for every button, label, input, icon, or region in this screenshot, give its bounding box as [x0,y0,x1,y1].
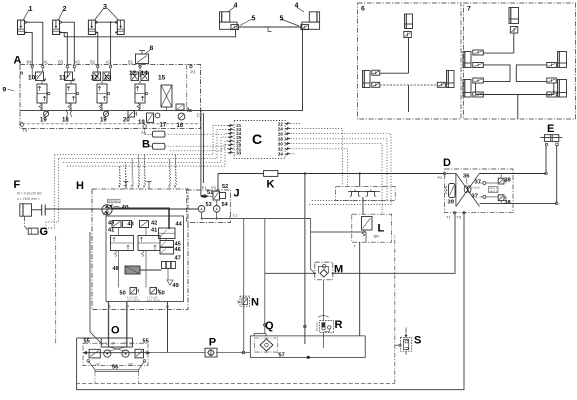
box7 valve LU a [473,50,484,55]
box7 wire center drop [517,95,519,120]
H vent T right [147,182,152,190]
svg-text:E: E [547,123,554,135]
O dashdot body [83,343,148,366]
box6 valve right [437,82,445,87]
svg-text:44: 44 [176,222,183,228]
H vent T left [124,182,129,190]
box6 wire upper rail [380,72,409,74]
check valve 19a [43,111,48,117]
svg-text:J: J [234,188,240,200]
leader 4 left [228,7,235,12]
coupling box above L [336,186,396,200]
dashed enclosure left edge [55,236,57,345]
ECU C box [234,121,285,159]
svg-text:19: 19 [138,120,145,126]
relief valve 20 [128,111,137,118]
governor 16 [178,113,185,120]
svg-text:P2: P2 [438,175,444,180]
wire R down [322,332,324,348]
svg-text:55: 55 [143,339,149,345]
trailer unit Q outer box [250,336,365,358]
A left port circle [20,72,22,74]
solenoid valve 11 [65,72,79,111]
main wire K line [218,173,264,175]
svg-text:N: N [251,297,259,309]
wire M line to D T1 [265,213,455,273]
svg-text:43: 43 [108,221,114,227]
wire K branch down to J valve [217,174,219,192]
Q inner dashdot [254,338,277,352]
box7 chamber right lower [558,80,567,98]
box7 chamber right upper [558,52,567,68]
coupling E [540,135,562,146]
wire steering shaft [32,209,42,211]
wire 44 to 45 [165,239,167,241]
svg-text:ANTI DROP: ANTI DROP [147,299,160,302]
svg-text:41: 41 [151,228,157,234]
leader 9 [8,89,15,91]
box7 wire top chamber drop [513,33,515,53]
hand brake unit J box [187,190,231,223]
box7 chamber left lower [463,80,471,98]
gauge 53 [198,206,205,213]
valve stack left [111,221,134,257]
svg-text:57: 57 [279,353,285,359]
box7 wire top rail [484,52,514,54]
breather 49 [167,280,173,285]
svg-text:38: 38 [504,200,511,206]
wire E left down [545,146,547,173]
box7 valve RU [547,63,557,68]
svg-text:K: K [267,179,275,191]
solenoid valve 12-14 [131,72,149,111]
svg-text:B1: B1 [128,59,134,64]
H inner box [106,216,184,302]
wire P2 from A to J [202,113,204,183]
wire 8 to B1 [139,64,141,67]
box6 valve left upper [372,70,380,75]
box6 valve below top chamber [404,32,412,38]
D crossover X [446,173,480,206]
box6 valve left lower [372,82,380,87]
sensor B upper [153,131,165,137]
D port P2 circle [444,172,446,174]
svg-text:33: 33 [236,150,241,155]
wire border to O box [77,337,102,339]
wire O to P [150,352,206,354]
valve S [401,333,412,352]
wire P1 from A to J [200,111,202,196]
D mid port circles [483,182,486,185]
wire gauge54 down [216,212,218,218]
hydraulic power pack H box [92,189,188,310]
box7 chamber top [509,8,519,24]
O motor left [104,350,111,357]
svg-text:20: 20 [123,118,130,124]
subsystem box 7 [464,3,576,119]
box7 valve RB b [547,92,557,97]
box6 wire top chamber down [408,38,410,74]
svg-text:MADE IN: MADE IN [489,187,498,190]
brake chamber 3 right [115,20,124,34]
svg-text:49: 49 [173,283,179,289]
steering wheel F [20,204,32,216]
wire A bus to trailer supply riser [196,29,303,110]
wire B upper dotted to C [165,133,234,134]
svg-text:T1: T1 [233,213,238,218]
box7 valve LU b [473,63,484,68]
leader line 1 [24,10,30,20]
svg-text:DP: DP [96,363,100,367]
Q shuttle diamond [260,339,273,351]
spec box D [489,187,499,193]
svg-text:B: B [142,139,150,151]
svg-text:A3: A3 [75,59,81,64]
dashed enclosure right [394,235,396,384]
wire chamber2 to trailer line [61,30,235,37]
trailer brake valve L [352,214,392,242]
svg-text:12: 12 [129,70,137,77]
svg-text:A: A [14,55,22,67]
O sump circles [87,360,90,363]
C output dotted wires [291,129,343,187]
svg-text:n = 2100 min⁻¹: n = 2100 min⁻¹ [17,197,40,201]
svg-text:A2: A2 [106,59,112,64]
solenoid wires to H valves [118,166,120,188]
axle unit O top box [101,338,132,347]
filter M [314,262,334,280]
svg-text:4 CYL WD: 4 CYL WD [127,298,138,300]
valve stack right [138,221,160,257]
control wire row 4 [67,141,234,166]
svg-text:P2: P2 [211,185,217,190]
box6 chamber top [405,14,413,29]
control wire row 3 [63,137,234,162]
box7 wire left U [484,65,511,82]
svg-text:50: 50 [120,291,126,297]
wire P to Q [216,352,250,354]
box7 wire LB drop [475,83,477,95]
svg-text:F: F [14,179,21,191]
wire chamber3 pair link [96,21,116,23]
svg-text:18: 18 [62,118,69,124]
svg-text:BR: BR [374,234,380,239]
O sump trapezoid [88,361,144,370]
wire L down to Q [359,242,361,336]
wire between valves 5 [239,26,301,28]
svg-text:MADE IN: MADE IN [489,190,498,193]
svg-text:11: 11 [59,75,66,82]
wire chamber2 to port B3 [61,32,67,64]
A internal divider right [186,65,188,111]
valve 51-52 [201,191,226,200]
valve 39 [446,184,455,198]
trailer valve block D [445,169,513,213]
relay valve 5 left [231,25,239,30]
svg-text:B3: B3 [58,59,64,64]
port A1 diamond [143,124,147,129]
svg-text:13: 13 [104,75,112,82]
leader 8 [145,50,150,54]
svg-text:T4: T4 [23,128,29,133]
svg-text:ANTI DROP: ANTI DROP [127,299,140,302]
svg-text:P1: P1 [202,185,208,190]
return wire J to M leg [202,212,315,273]
svg-text:P: P [209,337,216,349]
coupling heads [348,190,380,197]
box7 wire right U [516,65,547,82]
O drains dashdot [95,371,139,383]
wire S dashdot horizontal [395,344,399,346]
svg-text:34: 34 [278,152,283,157]
svg-text:D: D [443,157,451,169]
pump 40 [102,205,120,215]
pressure limiter 8 [136,51,149,64]
wire E right down [556,146,558,203]
svg-text:12: 12 [91,75,99,82]
control wire G riser a [40,155,54,228]
svg-text:38: 38 [504,178,511,184]
throttle 18 [66,110,72,117]
wire M to R [322,280,324,321]
A bottom bus wire [20,110,196,112]
D bottom port circles [453,212,455,214]
wire A1 down to unit B [145,129,153,135]
svg-text:B4: B4 [27,59,33,64]
solenoid valve 12-13 [93,72,111,111]
svg-text:8: 8 [150,45,154,52]
leader 4 right [297,7,305,12]
wire chamber3 link to A2 [110,22,112,64]
svg-text:6: 6 [361,6,365,13]
svg-text:7: 7 [467,6,471,13]
port T4 [20,122,24,127]
wire B lower stub [149,145,153,147]
svg-text:R: R [335,319,343,331]
box7 valve below top chamber [510,27,518,34]
valves 45 46 [160,241,174,255]
check valve 19b [103,111,108,117]
svg-text:41: 41 [108,228,114,234]
svg-text:47: 47 [175,256,181,262]
relief 50 right [150,288,159,295]
wire F to G dash [25,216,29,230]
leader lines 3 [95,8,118,20]
brake chamber 2 [53,20,62,34]
box7 valve LB a [473,78,484,83]
svg-text:53: 53 [206,202,212,208]
svg-text:52: 52 [222,184,228,190]
Q bottom junction dot [307,356,310,359]
svg-text:0.5cm³: 0.5cm³ [472,185,481,189]
box7 valve LB b [473,92,484,97]
svg-text:14: 14 [141,70,149,77]
wire main line to coupling L [359,174,361,187]
wire S dashdot vertical [405,328,407,355]
wire 47 down [167,269,169,281]
svg-text:56: 56 [112,365,118,371]
wire 48 link [140,269,162,271]
svg-text:S: S [414,335,421,347]
svg-text:MIN MAX: MIN MAX [108,200,119,203]
svg-text:17: 17 [160,123,167,129]
filter 15 [161,85,172,111]
main steering wire to J [45,208,198,210]
A inner dashed line [22,123,198,125]
wire S port to O [108,302,110,347]
box7 wire RB drop [553,83,555,95]
A top port circles [31,65,33,67]
relief 38 lower [486,195,506,201]
svg-text:O: O [111,325,120,337]
wire coupling to L valve [362,197,364,214]
wire chamber3 to port B2 [96,32,98,64]
svg-text:G: G [40,226,49,238]
wire B lower dotted to C [165,145,234,146]
control wire row 1 [54,125,234,154]
svg-text:43: 43 [128,222,134,228]
gearbox 55 left [89,349,100,358]
spring brake chamber 4 left [220,12,238,30]
svg-text:H: H [76,180,84,192]
svg-text:10: 10 [28,75,36,82]
leader line 2 [59,10,64,20]
box6 wire center drop [408,85,410,112]
brake chamber 3 left [88,20,97,34]
wire chamber1 port to AL [26,22,43,64]
svg-text:P1: P1 [191,70,197,75]
valve 5c small [176,104,184,110]
svg-text:35 dNm: 35 dNm [315,322,319,331]
svg-text:5: 5 [280,14,284,23]
sensor B lower [153,143,165,149]
leader 5 left [240,19,252,26]
valve 20b [147,113,154,123]
solenoid wires to H right valves [168,159,170,188]
valve N [238,296,250,306]
wire T5 big return loop [77,213,464,390]
gauge 54 [213,206,220,213]
relief 38 upper [486,178,506,184]
box7 valve RB a [547,78,557,83]
S left port [399,344,401,346]
O motor right [122,350,129,357]
wire D bottom rail to E [480,202,557,204]
svg-text:B2: B2 [90,59,96,64]
control wire row 2 [58,129,234,158]
svg-text:3: 3 [187,108,190,114]
wire J tank drop to Q [264,219,266,334]
svg-text:51: 51 [207,190,213,196]
box6 wire lower rail [380,84,438,86]
svg-text:42: 42 [151,221,157,227]
svg-text:1: 1 [29,4,33,13]
spring brake chamber 4 right [302,12,320,30]
wire main to Q right leg [304,174,306,345]
svg-text:4 CYL WD: 4 CYL WD [147,298,158,300]
dashed enclosure bottom [76,383,395,385]
pump spec box [108,199,121,203]
steering shaft coupling [42,205,46,216]
leader 5 right [281,19,299,26]
Q top connector [254,334,266,336]
row 5 short [170,149,234,151]
wire U port down [167,302,169,353]
svg-text:5: 5 [252,14,256,23]
reservoir 48 [125,266,140,274]
svg-text:9: 9 [3,87,7,94]
bold supply wire [111,208,169,229]
leader 57 [278,353,281,355]
check valve 19d [155,113,160,118]
subsystem box 6 [358,3,462,119]
svg-text:4: 4 [234,1,238,10]
wire P port to O [126,302,128,347]
svg-text:55: 55 [84,339,90,345]
box6 chamber right [447,71,455,88]
brake chamber 1 [18,20,27,34]
svg-text:BP: BP [129,363,133,367]
svg-text:2: 2 [63,4,67,13]
return wire branch to L T port [311,232,366,242]
control wire G riser b [37,159,58,232]
priority valve 44 [159,228,176,239]
box7 chamber left upper [463,52,471,68]
box7 wire bottom rail [476,94,554,96]
svg-text:19: 19 [40,118,47,124]
valve R [319,315,334,332]
wire D top rail to E [480,173,547,175]
gearbox 55 right [135,349,144,358]
svg-text:3: 3 [103,2,107,11]
svg-text:19: 19 [100,118,107,124]
svg-text:39: 39 [448,200,455,206]
wire valve52 to gauge54 [216,200,218,206]
wire 38 risers [480,174,502,204]
svg-text:T1: T1 [446,215,451,220]
wire chamber1 to port B4 [26,32,32,64]
sensor G [28,228,38,234]
O cross wires [109,347,127,351]
solenoid valve 10 [36,72,50,111]
svg-text:15: 15 [158,75,166,82]
test port on wire 4 [268,27,272,32]
svg-text:T5: T5 [457,215,462,220]
brake valve P [205,348,217,357]
svg-text:46: 46 [175,247,181,253]
relief 50 left [130,288,139,295]
restrictor K [264,171,278,177]
svg-text:Q: Q [265,320,274,332]
wire A port 13 bus [200,110,202,112]
box6 chamber left [363,71,371,88]
wire H left edge to O [90,232,103,345]
svg-text:48: 48 [113,266,119,272]
wire stack right down [145,251,147,288]
A port stub wires [31,68,33,77]
svg-text:54: 54 [222,202,229,208]
svg-text:AL: AL [44,59,50,64]
svg-text:C: C [252,131,262,147]
O shaft arrow wire [84,352,150,354]
wire N leg down [243,219,245,352]
svg-text:M = 0.20±25 Nm: M = 0.20±25 Nm [17,192,42,196]
svg-text:50: 50 [159,291,165,297]
axle modulator block A [20,65,201,129]
wire stack left down [118,251,120,288]
filter stack 47 [162,262,176,269]
svg-text:37: 37 [472,194,478,200]
